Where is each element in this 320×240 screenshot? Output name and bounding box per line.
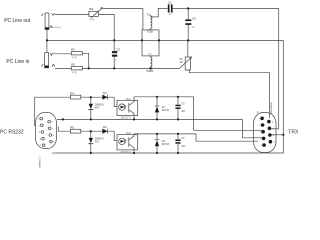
svg-text:4: 4 xyxy=(260,138,261,140)
svg-text:9: 9 xyxy=(53,142,54,144)
svg-text:R5: R5 xyxy=(70,126,74,130)
svg-text:OC1: OC1 xyxy=(126,98,132,101)
svg-text:C3: C3 xyxy=(192,17,196,21)
svg-text:TS1B0: TS1B0 xyxy=(146,70,154,73)
svg-text:CNY17-2: CNY17-2 xyxy=(121,151,132,154)
svg-text:PC Line out: PC Line out xyxy=(4,18,31,24)
svg-text:6: 6 xyxy=(52,122,53,124)
svg-text:R1: R1 xyxy=(71,48,75,52)
svg-text:D2: D2 xyxy=(103,125,107,129)
svg-text:470: 470 xyxy=(72,70,77,74)
svg-text:R4: R4 xyxy=(70,91,74,95)
svg-text:1n: 1n xyxy=(192,25,196,29)
svg-text:CNY17-2: CNY17-2 xyxy=(121,117,132,120)
svg-text:C2: C2 xyxy=(116,47,120,51)
svg-text:5: 5 xyxy=(261,145,262,147)
svg-text:4n7: 4n7 xyxy=(181,110,186,113)
svg-text:sterowanie: sterowanie xyxy=(270,102,273,114)
svg-text:47k: 47k xyxy=(89,17,94,21)
svg-text:1: 1 xyxy=(259,118,260,120)
svg-text:2: 2 xyxy=(38,125,39,127)
svg-text:R2: R2 xyxy=(71,63,75,67)
svg-text:C1: C1 xyxy=(168,0,172,4)
svg-text:TS1B: TS1B xyxy=(147,31,153,34)
svg-text:7: 7 xyxy=(273,128,274,130)
svg-text:7: 7 xyxy=(52,128,53,130)
svg-text:8: 8 xyxy=(53,135,54,137)
svg-text:4V3: 4V3 xyxy=(95,141,100,144)
svg-text:4n7: 4n7 xyxy=(181,145,186,148)
svg-text:5: 5 xyxy=(40,145,41,147)
svg-text:PC RS232: PC RS232 xyxy=(0,130,24,136)
svg-text:OC2: OC2 xyxy=(126,132,132,135)
svg-text:TRX: TRX xyxy=(288,129,299,135)
svg-text:3: 3 xyxy=(39,132,40,134)
svg-text:BAT48: BAT48 xyxy=(162,143,170,146)
svg-text:470: 470 xyxy=(72,55,77,59)
svg-text:4k7: 4k7 xyxy=(180,61,185,64)
svg-text:3: 3 xyxy=(260,132,261,134)
svg-text:1n: 1n xyxy=(113,58,117,62)
svg-text:9: 9 xyxy=(274,142,275,144)
svg-text:PC Line in: PC Line in xyxy=(6,59,29,65)
svg-text:4V3: 4V3 xyxy=(95,106,100,109)
svg-text:D1: D1 xyxy=(103,91,107,95)
svg-text:2: 2 xyxy=(259,125,260,127)
svg-text:6: 6 xyxy=(272,122,273,124)
svg-text:zworka 1-2: zworka 1-2 xyxy=(39,156,42,168)
svg-text:R9: R9 xyxy=(89,7,93,11)
svg-text:4: 4 xyxy=(40,139,41,141)
svg-text:1: 1 xyxy=(38,119,39,121)
svg-text:BAT48: BAT48 xyxy=(162,109,170,112)
svg-text:8: 8 xyxy=(273,135,274,137)
